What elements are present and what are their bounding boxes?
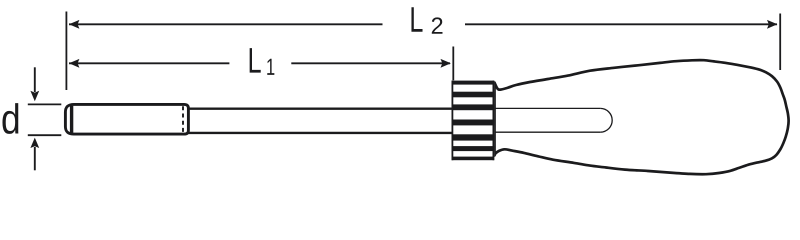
ferrule band 7 [452, 157, 495, 161]
d arrowhead lower [30, 138, 39, 148]
arrowhead L1 left [69, 59, 79, 68]
shaft slot rounded end [600, 108, 612, 132]
ferrule band 5 [452, 134, 495, 140]
extension line right (L2 end, handle tip) [779, 14, 781, 71]
ferrule band 4 [452, 120, 495, 126]
arrowhead L2 left [69, 20, 79, 29]
shaft slot inside handle bottom [495, 131, 601, 133]
label L1 subscript 1 [267, 59, 274, 75]
d extension line bottom [28, 134, 62, 136]
ferrule right edge [492, 81, 494, 161]
d arrowhead upper [30, 91, 39, 101]
arrowhead L1 right [441, 59, 451, 68]
dimension line L1 left segment [69, 62, 229, 64]
ferrule band 6 [452, 146, 495, 151]
extension line left (L1/L2 origin) [65, 12, 67, 91]
ferrule band 1 [452, 81, 495, 85]
socket chamfer line [70, 106, 73, 133]
shaft slot inside handle top [495, 107, 601, 109]
shaft top line [188, 107, 452, 109]
dimension line L2 right segment [465, 23, 777, 25]
extension line middle (L1 end, ferrule) [452, 47, 454, 81]
socket hidden depth line (dashed) [182, 106, 184, 132]
dimension line L2 left segment [69, 23, 383, 25]
d extension line top [28, 103, 62, 105]
socket body (nut driver tip) [65, 104, 188, 134]
handle outline [495, 60, 789, 174]
d arrow upper (pointing down) [34, 67, 36, 92]
dimension line L1 right segment [291, 62, 450, 64]
ferrule band 2 [452, 92, 495, 98]
label L1 [250, 48, 261, 72]
label L2 [411, 7, 422, 31]
ferrule band 3 [452, 104, 495, 110]
ferrule left edge [451, 81, 453, 161]
arrowhead L2 right [767, 20, 777, 29]
shaft bottom line [188, 132, 452, 134]
ferrule body [452, 81, 495, 161]
label L2 subscript 2 [432, 17, 443, 33]
d arrow lower (pointing up) [34, 147, 36, 170]
label d [2, 103, 18, 134]
